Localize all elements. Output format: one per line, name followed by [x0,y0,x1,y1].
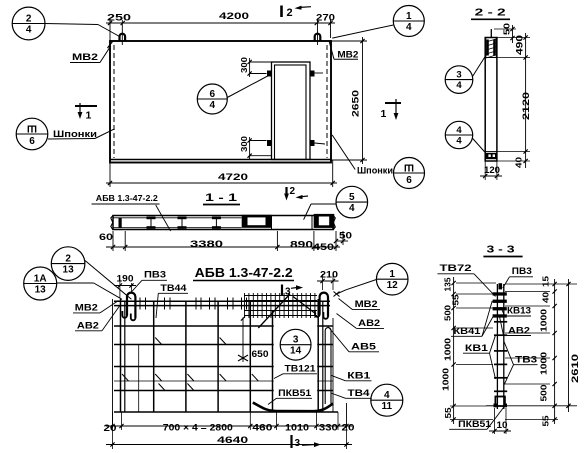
mesh top chord [114,301,330,305]
svg-text:3: 3 [285,287,291,298]
diagonal bar [258,294,316,328]
svg-text:55: 55 [450,294,460,305]
svg-text:3380: 3380 [190,239,223,249]
label PV3 [130,270,167,294]
door opening plan [272,62,311,160]
svg-text:4: 4 [210,100,216,111]
svg-text:1 - 1: 1 - 1 [205,192,237,204]
label TV44 [156,283,188,318]
dimension 650 [238,316,269,362]
svg-text:500: 500 [539,384,549,401]
section mark 13 bottom [292,435,322,449]
keys note right (Shponki) [332,135,424,189]
label MV2 mesh left [73,301,119,314]
svg-text:50: 50 [339,231,352,241]
dimension 490 2120 40 (2-2) [497,33,531,168]
svg-text:ТВ72: ТВ72 [440,263,472,274]
svg-text:4720: 4720 [218,172,248,183]
dimension 190 [114,274,136,299]
hinge tab bottom-right [310,140,325,146]
dimension chain left 3-3 [440,277,496,424]
svg-text:2120: 2120 [521,92,531,120]
mesh thin vertical [138,345,140,413]
svg-text:МВ2: МВ2 [355,299,378,310]
section mark 1 right [381,99,402,120]
dimension 50 (1-1 right) [334,231,352,246]
mesh intersection flags [122,338,258,391]
svg-text:2: 2 [26,13,32,24]
callout 6/4 [197,75,269,114]
callout 5/4 [304,186,368,219]
label PKV51 mesh [268,388,312,405]
label ABV 1.3-47-2.2 small [92,193,171,231]
svg-text:55: 55 [443,407,453,418]
svg-text:890: 890 [290,240,313,250]
svg-text:300: 300 [239,57,249,73]
svg-text:12: 12 [387,280,399,291]
dimension 2610 [566,279,581,412]
label AV2 mesh right [337,314,385,330]
svg-text:5: 5 [349,192,355,203]
svg-text:13: 13 [63,264,75,275]
svg-text:МВ2: МВ2 [75,303,98,314]
mesh row 1 [114,344,333,346]
hinge tab bottom-left [267,140,272,146]
svg-text:4: 4 [456,125,462,136]
mesh vertical bars [154,301,251,412]
section mark 2 top [282,6,312,20]
label AV2 33 [500,317,532,336]
svg-text:50: 50 [502,23,512,35]
svg-text:4200: 4200 [219,11,249,21]
svg-text:АВ2: АВ2 [77,321,99,332]
svg-text:1000: 1000 [539,352,549,375]
section 3-3 top stud [499,283,503,289]
svg-text:Ш: Ш [404,162,414,173]
dimension 300 bottom [239,136,271,159]
section 3-3 member bars [497,284,503,409]
svg-text:АВ5: АВ5 [351,342,377,353]
bent plate PKV51 [253,403,333,412]
svg-text:40: 40 [541,292,551,303]
label PKV51 33 [449,408,503,430]
title ABV 1.3-47-2.2 [193,266,294,281]
svg-text:КВ41: КВ41 [453,326,480,336]
svg-text:13: 13 [35,284,47,295]
lifting loop left mesh [122,293,135,321]
svg-text:40: 40 [514,157,524,168]
callout 1/12 [334,263,409,296]
svg-text:3 - 3: 3 - 3 [487,244,515,256]
label MV2 mesh right [339,299,381,311]
section mark 1 left [75,103,97,122]
svg-text:14: 14 [290,346,302,357]
svg-text:135: 135 [442,277,452,291]
section 3-3 cross ticks [494,322,507,392]
section mark 13 top [282,285,303,298]
svg-text:650: 650 [252,349,269,359]
svg-text:55: 55 [541,415,551,426]
dimension 2650 [331,37,367,164]
svg-text:250: 250 [107,13,131,23]
svg-text:450: 450 [313,242,334,252]
dimension line top 250 4200 270 [106,11,335,41]
svg-text:270: 270 [316,13,335,23]
svg-text:1010: 1010 [285,423,309,433]
label KV41 [451,301,493,336]
svg-text:1000: 1000 [440,368,450,391]
svg-text:КВ13: КВ13 [507,306,531,316]
label TV3 [504,342,538,386]
dimension 4720 [106,160,337,187]
svg-text:4: 4 [456,80,462,91]
svg-text:6: 6 [210,89,216,100]
svg-text:АВ2: АВ2 [358,318,380,329]
svg-text:3: 3 [456,69,461,80]
svg-text:3: 3 [293,335,299,346]
callout 3/14 [280,329,311,360]
svg-text:АБВ 1.3-47-2.2: АБВ 1.3-47-2.2 [195,266,293,280]
svg-text:ПВ3: ПВ3 [512,266,532,277]
svg-text:210: 210 [320,270,338,280]
label TV72 [438,263,496,297]
svg-text:300: 300 [239,136,249,152]
label PV3 right [503,266,533,288]
svg-text:500: 500 [442,305,452,321]
label AV5 [328,326,380,353]
svg-text:1000: 1000 [442,338,452,361]
svg-text:ПВ3: ПВ3 [144,270,166,281]
callout 3/4 [445,55,486,94]
svg-text:2650: 2650 [351,90,362,117]
callout 4/4 [445,121,485,152]
mesh row thin [114,380,333,382]
svg-text:КВ1: КВ1 [465,343,488,353]
svg-text:15: 15 [541,276,551,287]
dimension 210 [317,270,339,291]
panel corner step [108,42,113,49]
svg-text:4640: 4640 [217,435,248,446]
label AV2 mesh left [75,306,120,332]
svg-text:1: 1 [389,269,395,280]
mesh row 2 [114,366,333,368]
svg-text:2: 2 [290,186,296,197]
title 1-1 [203,192,240,205]
svg-text:1: 1 [406,11,412,22]
label KV13 [501,306,531,317]
label KV1 mesh [331,371,372,382]
lifting loop left plan [120,20,126,45]
callout 2/13 [51,247,131,299]
svg-text:4: 4 [384,390,390,401]
svg-text:6: 6 [29,136,35,147]
mesh bottom chord [114,411,338,413]
panel plan outline [110,41,331,163]
svg-text:ПКВ51: ПКВ51 [458,419,491,429]
svg-text:4: 4 [26,24,32,35]
svg-text:ТВ121: ТВ121 [285,364,316,374]
callout 1A/13 [24,267,122,300]
hinge tab top-left [267,71,272,77]
mesh row 0 [114,325,333,327]
svg-text:ТВ4: ТВ4 [348,388,371,399]
svg-text:АВ2: АВ2 [508,326,530,336]
mesh panel edges [113,299,347,428]
svg-text:6: 6 [406,175,412,186]
svg-text:11: 11 [382,401,393,412]
label TV4 [331,388,372,399]
svg-text:ПКВ51: ПКВ51 [278,388,311,398]
callout 2/4 [12,7,119,40]
lifting loop right plan [315,20,321,45]
section 2-2 bottom detail [485,152,497,160]
svg-text:490: 490 [515,35,525,55]
section 2-2 member [485,38,497,162]
dimension 10 [489,408,511,434]
opening gap (1-1) [272,216,313,231]
svg-text:2: 2 [287,7,293,19]
svg-text:1: 1 [381,108,387,120]
dimension row 60 3380 890 450 [99,231,340,252]
svg-text:120: 120 [484,165,500,175]
keys note left (Shponki) [16,118,114,150]
hairpin bar right [325,328,331,404]
title 2-2 [471,7,510,20]
svg-text:Ш: Ш [27,123,37,134]
mesh left edge bars [121,299,125,412]
dimension row 20 700x4 460 1010 330 20 [104,412,355,449]
section mark 2 bottom [284,186,308,201]
section 1-1 panel body [111,216,333,231]
svg-text:АБВ 1.3-47-2.2: АБВ 1.3-47-2.2 [96,193,158,203]
svg-text:4: 4 [349,203,355,214]
label KV1 33 [463,335,496,379]
top chord cross ticks [140,298,247,310]
svg-text:20: 20 [342,423,355,433]
title 3-3 [483,244,522,257]
label MV2 left plan [70,46,111,63]
label TV121 [274,364,317,379]
svg-text:700 × 4 = 2800: 700 × 4 = 2800 [163,423,233,433]
opening edge bar [272,310,274,412]
svg-text:ТВ3: ТВ3 [515,355,537,365]
svg-text:190: 190 [117,274,134,284]
callout 4/11 [371,384,403,416]
hinge tab top-right [310,71,323,77]
svg-text:2 - 2: 2 - 2 [475,7,506,19]
embedded plate (1-1) right [315,215,335,230]
svg-text:4: 4 [456,135,462,146]
svg-text:3: 3 [295,438,301,449]
svg-text:2: 2 [65,253,71,264]
svg-text:10: 10 [497,420,508,430]
section 3-3 top studs [493,292,507,317]
label MV2 right plan [329,42,358,61]
mesh row 3 [114,390,333,392]
lifting loop right mesh [315,293,328,319]
dimension 120 (2-2) [480,161,502,180]
door opening blank [274,319,318,411]
section 2-2 top detail [486,29,497,58]
svg-text:1: 1 [86,110,92,122]
embedded plate (1-1) left [243,216,270,226]
svg-text:ТВ44: ТВ44 [160,283,187,294]
svg-text:1А: 1А [34,273,47,284]
svg-text:460: 460 [252,423,272,433]
dimension 300 top [239,57,271,77]
dimension chain right 3-3 [505,276,577,427]
callout 1/4 [332,6,424,39]
svg-text:20: 20 [104,423,117,433]
svg-text:МВ2: МВ2 [72,52,98,63]
svg-text:2610: 2610 [570,354,581,383]
dimension 50 (2-2) [494,23,516,43]
svg-text:1000: 1000 [539,309,549,332]
svg-text:60: 60 [99,232,113,242]
section 3-3 bottom plate [486,397,507,408]
lintel dense bars [244,293,317,318]
svg-text:4: 4 [406,22,412,33]
svg-text:КВ1: КВ1 [347,371,371,382]
dimension 4640 [106,435,352,447]
svg-text:Шпонки: Шпонки [357,166,393,177]
mesh right edge bars [318,299,323,412]
svg-text:330: 330 [319,423,338,433]
